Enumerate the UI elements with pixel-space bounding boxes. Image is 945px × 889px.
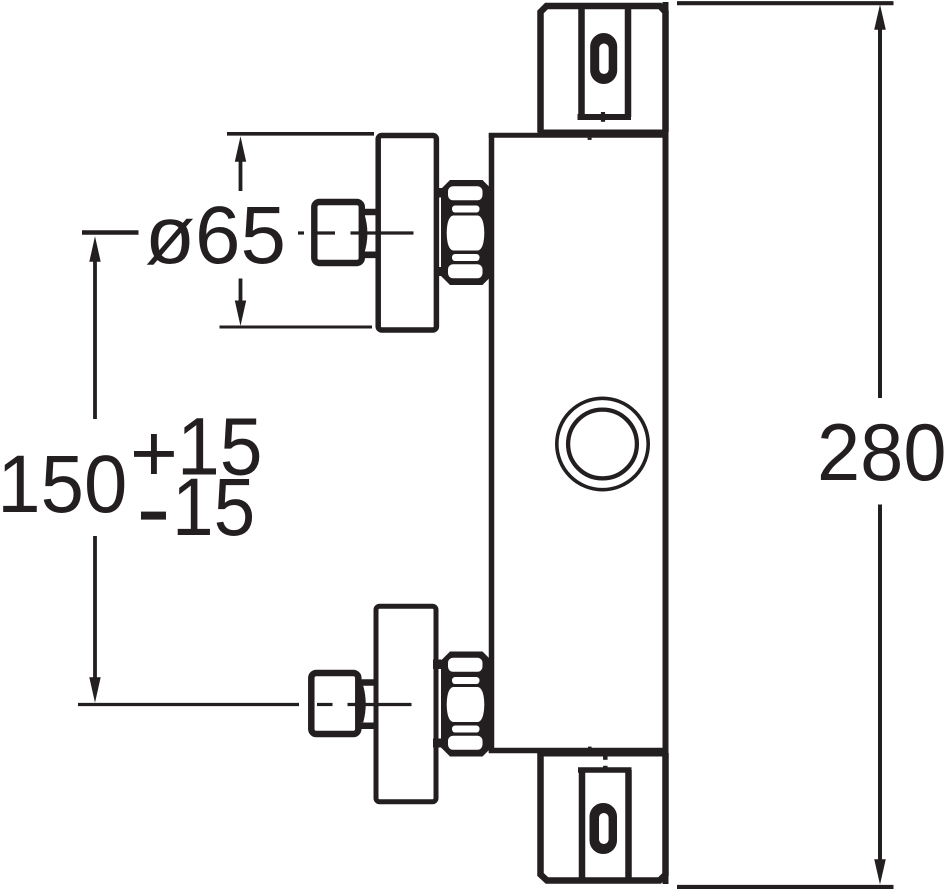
svg-text:280: 280 (817, 408, 945, 498)
svg-text:15: 15 (172, 462, 255, 553)
svg-text:150: 150 (0, 439, 127, 530)
svg-text:ø65: ø65 (145, 190, 286, 281)
svg-text:+: + (130, 408, 178, 499)
